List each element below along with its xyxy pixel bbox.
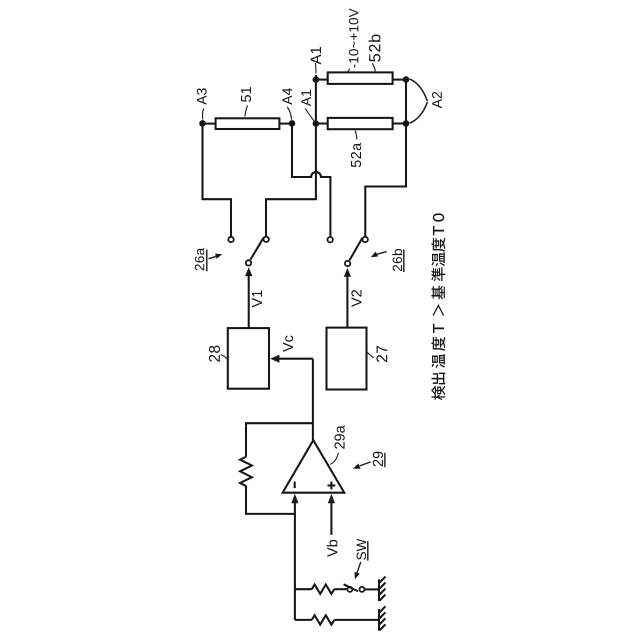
node A2 upper (right end of resistor 52b) [403,76,410,83]
node A1 upper (junction with resistor 52b) [313,76,320,83]
switch 26b [328,237,368,266]
wire V2 arrow into switch 26b pole [344,268,351,328]
leader for label 29a [330,453,338,465]
label Vb [327,540,338,557]
leader for label 52b [372,63,375,71]
leader for label A1 upper [314,63,317,74]
node A1 lower (junction with resistor 52a) [313,120,320,127]
label 26a [195,248,205,270]
wire A4 node down, hop over A1 wire, to switch 26b left contact [292,124,330,237]
wire inverting input arrow [291,494,298,620]
arrow for label 29 [353,462,371,469]
node A2 lower (right end of resistor 52a) [403,120,410,127]
label 29a [334,425,344,448]
resistor at lower branch [312,615,335,624]
feedback resistor [240,457,252,486]
resistor at inverting input branch [312,585,335,594]
label Vc [283,335,293,351]
arrow for label 26b [371,252,387,258]
wire non-inverting input arrow from Vb [328,494,335,535]
node A3 [199,120,206,127]
leader for label 27 [367,352,374,358]
label A1 upper [311,47,321,65]
wire lower branch to ground [295,619,379,621]
wire op-amp output up [312,359,314,440]
leader for label 51 [245,106,248,117]
label A1 lower [301,90,311,106]
resistor 51 [205,118,291,129]
wire Vc arrow from op-amp output into block 28 [270,355,313,363]
arrow for label 26a [209,254,223,259]
label -10~+10V [349,8,358,67]
ground upper [379,577,385,601]
resistor 52a [316,118,407,129]
wire V1 arrow into switch 26a pole [245,267,252,328]
op-amp 29a triangle [283,440,345,493]
label 27 [376,346,387,362]
leader for label 52a [355,131,357,140]
switch SW [344,584,365,592]
node A4 [289,120,296,127]
wire right side down to switch 26b right contact [365,80,406,237]
underline for label 26a [206,250,208,272]
label V2 [351,290,361,307]
wire switch SW to ground [365,588,379,590]
leader for label A1 lower [305,109,314,122]
switch 26a [228,237,269,266]
label A2 [432,92,442,108]
block 27 [327,328,367,390]
underline for label 29 [384,453,386,467]
wire feedback loop [246,423,313,514]
label 51 [241,87,251,102]
wire A3 node down to switch 26a left contact [203,124,232,237]
label 26b [392,249,402,271]
leader for label A3 [203,109,204,120]
ground lower [379,606,385,630]
label SW [357,539,367,560]
label A3 [197,88,207,104]
op-amp plus sign [328,482,336,490]
brace A2 upper arc [410,79,428,101]
block 28 [228,328,269,389]
leader for label 28 [221,355,228,360]
wire inverting branch to switch SW [295,588,347,590]
underline for label SW [367,541,369,561]
leader for label -10~+10V [347,69,350,73]
resistor 52b [316,72,407,84]
label 28 [209,346,220,362]
arrow for label SW [355,562,361,579]
wire node A1 vertical down then left to switch 26a right contact [266,75,316,236]
label 52b [369,35,381,62]
label 52a [351,143,361,167]
underline for label 26b [403,250,405,273]
brace A2 lower arc [410,102,428,123]
op-amp minus sign [294,482,296,489]
leader for label A4 [287,107,291,120]
label V1 [252,290,262,307]
annotation 検出温度 T > 基準温度 T0 (kanji as inline paths) [431,386,445,400]
label 29 [373,452,383,467]
label A4 [282,88,292,105]
